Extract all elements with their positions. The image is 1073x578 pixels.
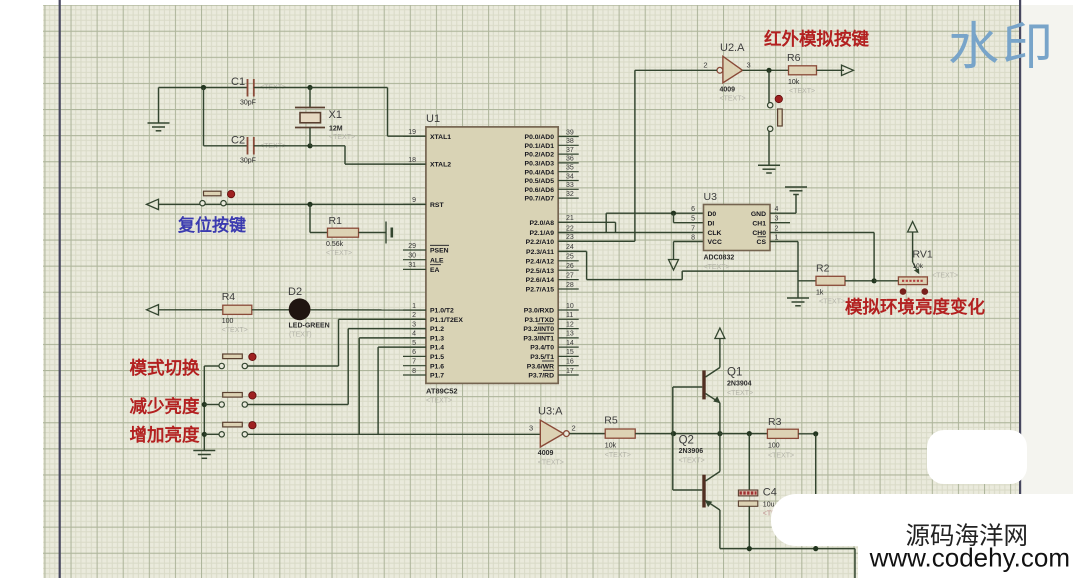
svg-text:X1: X1 bbox=[329, 109, 342, 121]
svg-text:2N3904: 2N3904 bbox=[727, 381, 752, 388]
svg-text:6: 6 bbox=[412, 349, 416, 356]
wire arrow to R4 bbox=[159, 309, 223, 311]
svg-text:减少亮度: 减少亮度 bbox=[130, 396, 200, 416]
svg-text:31: 31 bbox=[408, 262, 416, 269]
svg-text:39: 39 bbox=[566, 129, 574, 136]
svg-text:2: 2 bbox=[775, 226, 779, 233]
svg-text:模式切换: 模式切换 bbox=[130, 358, 200, 378]
cell symbol (reset) bbox=[386, 222, 392, 244]
wire to XTAL1 bbox=[310, 88, 426, 137]
reset net arrow bbox=[147, 199, 159, 209]
svg-text:ADC0832: ADC0832 bbox=[704, 255, 735, 262]
svg-text:P3.6/WR: P3.6/WR bbox=[527, 363, 554, 370]
svg-text:100: 100 bbox=[222, 318, 234, 325]
svg-text:R4: R4 bbox=[222, 291, 236, 303]
white corner block bbox=[858, 494, 1073, 578]
svg-text:21: 21 bbox=[566, 215, 574, 222]
svg-text:CH0: CH0 bbox=[752, 230, 766, 237]
svg-text:37: 37 bbox=[566, 147, 574, 154]
LED D2 bbox=[288, 286, 330, 339]
svg-text:30pF: 30pF bbox=[240, 158, 256, 165]
svg-text:6: 6 bbox=[691, 206, 695, 213]
svg-text:25: 25 bbox=[566, 254, 574, 261]
svg-text:P3.3/INT1: P3.3/INT1 bbox=[523, 336, 554, 343]
svg-text:4: 4 bbox=[775, 206, 779, 213]
potentiometer RV1 bbox=[898, 249, 958, 295]
svg-text:P3.2/INT0: P3.2/INT0 bbox=[523, 326, 554, 333]
svg-text:3: 3 bbox=[529, 424, 533, 433]
node CH0/R2/RV1 bbox=[872, 278, 877, 283]
svg-text:3: 3 bbox=[412, 321, 416, 328]
svg-text:P0.4/AD4: P0.4/AD4 bbox=[525, 169, 555, 176]
svg-text:1: 1 bbox=[775, 235, 779, 242]
svg-text:2N3906: 2N3906 bbox=[679, 448, 704, 455]
svg-text:5: 5 bbox=[412, 340, 416, 347]
svg-text:R2: R2 bbox=[816, 263, 830, 275]
svg-text:P3.4/T0: P3.4/T0 bbox=[530, 345, 554, 352]
svg-text:RV1: RV1 bbox=[913, 249, 933, 261]
node D0/DI tie bbox=[671, 211, 676, 216]
wire D2 to P1.0 bbox=[311, 309, 426, 311]
wire R3 right bbox=[798, 433, 815, 435]
svg-text:<TEXT>: <TEXT> bbox=[720, 96, 746, 103]
svg-text:复位按键: 复位按键 bbox=[177, 215, 246, 235]
svg-text:P3.5/T1: P3.5/T1 bbox=[530, 354, 554, 361]
svg-text:P0.2/AD2: P0.2/AD2 bbox=[525, 152, 555, 159]
svg-text:35: 35 bbox=[566, 165, 574, 172]
svg-text:增加亮度: 增加亮度 bbox=[130, 425, 200, 445]
svg-text:P2.4/A12: P2.4/A12 bbox=[526, 258, 555, 265]
svg-text:<TEXT>: <TEXT> bbox=[819, 299, 845, 306]
svg-text:P2.3/A11: P2.3/A11 bbox=[526, 249, 554, 256]
ground (infrared button) bbox=[758, 165, 780, 173]
node base tap bbox=[671, 431, 676, 436]
svg-text:13: 13 bbox=[566, 331, 574, 338]
svg-text:34: 34 bbox=[566, 173, 574, 180]
node R3 bottom bbox=[813, 546, 818, 551]
svg-text:P1.3: P1.3 bbox=[430, 336, 444, 343]
wire P2.1 / CLK row bbox=[558, 213, 703, 232]
wire CH1 stub bbox=[770, 222, 790, 224]
svg-text:XTAL1: XTAL1 bbox=[430, 134, 451, 141]
resistor R4 bbox=[222, 291, 252, 334]
svg-text:10k: 10k bbox=[605, 443, 617, 450]
svg-text:15: 15 bbox=[566, 349, 574, 356]
svg-text:19: 19 bbox=[408, 129, 416, 136]
wire R5 to emitter rail bbox=[635, 433, 720, 435]
svg-text:33: 33 bbox=[566, 182, 574, 189]
node (button tap) bbox=[766, 68, 771, 73]
svg-text:26: 26 bbox=[566, 263, 574, 270]
capacitor C1 bbox=[231, 76, 286, 107]
svg-text:4009: 4009 bbox=[538, 450, 554, 457]
node C4 bottom bbox=[747, 546, 752, 551]
push-button (infrared, vertical) bbox=[768, 70, 783, 165]
power flag up (Q1) bbox=[715, 328, 725, 339]
wire C1 to crystal node bbox=[254, 87, 310, 89]
label 模拟环境亮度变化 bbox=[845, 297, 985, 317]
node C4 top bbox=[747, 431, 752, 436]
push-button 模式切换 bbox=[219, 353, 256, 369]
svg-text:ALE: ALE bbox=[430, 257, 444, 264]
svg-text:2: 2 bbox=[572, 424, 576, 433]
label 增加亮度 bbox=[130, 425, 200, 445]
ground (buttons) bbox=[193, 451, 215, 459]
svg-text:1k: 1k bbox=[816, 290, 824, 297]
svg-text:100: 100 bbox=[768, 443, 780, 450]
svg-text:U1: U1 bbox=[426, 113, 440, 125]
svg-text:P3.1/TXD: P3.1/TXD bbox=[525, 317, 555, 324]
svg-text:Q1: Q1 bbox=[727, 367, 742, 379]
svg-text:P1.5: P1.5 bbox=[430, 354, 444, 361]
wire R4 to D2 bbox=[252, 309, 289, 311]
svg-text:CH1: CH1 bbox=[752, 220, 766, 227]
svg-text:<TEXT>: <TEXT> bbox=[326, 250, 352, 257]
wire button1 row bbox=[204, 365, 338, 367]
resistor R6 bbox=[787, 52, 817, 95]
resistor R2 bbox=[798, 263, 874, 306]
node rail/button2 bbox=[202, 402, 207, 407]
svg-text:R1: R1 bbox=[329, 215, 343, 227]
svg-text:P2.2/A10: P2.2/A10 bbox=[526, 239, 555, 246]
svg-text:Q2: Q2 bbox=[679, 435, 694, 447]
svg-text:2: 2 bbox=[703, 61, 707, 70]
svg-text:23: 23 bbox=[566, 234, 574, 241]
svg-text:17: 17 bbox=[566, 368, 574, 375]
svg-text:R6: R6 bbox=[787, 52, 801, 64]
svg-text:P1.7: P1.7 bbox=[430, 373, 444, 380]
svg-text:(TEXT): (TEXT) bbox=[289, 332, 312, 339]
svg-text:36: 36 bbox=[566, 156, 574, 163]
wire U2.A output bbox=[743, 69, 789, 71]
transistor Q1 2N3904 bbox=[673, 339, 753, 434]
wire P2.3 to CS net bbox=[558, 251, 798, 279]
wire C2 to crystal node bbox=[254, 145, 310, 147]
svg-text:P0.7/AD7: P0.7/AD7 bbox=[525, 196, 555, 203]
svg-text:P0.0/AD0: P0.0/AD0 bbox=[525, 134, 555, 141]
wire to XTAL2 bbox=[310, 146, 426, 164]
svg-text:P2.0/A8: P2.0/A8 bbox=[529, 220, 554, 227]
svg-text:P3.7/RD: P3.7/RD bbox=[528, 373, 554, 380]
svg-text:3: 3 bbox=[747, 61, 751, 70]
svg-text:29: 29 bbox=[408, 243, 416, 250]
svg-text:<TEXT>: <TEXT> bbox=[932, 273, 958, 280]
ground (crystal circuit) bbox=[148, 88, 170, 131]
wire bottom rail bbox=[720, 549, 855, 578]
svg-text:EA: EA bbox=[430, 267, 440, 274]
svg-text:18: 18 bbox=[408, 157, 416, 164]
svg-text:30: 30 bbox=[408, 253, 416, 260]
svg-text:<TEXT>: <TEXT> bbox=[222, 327, 248, 334]
svg-text:P0.1/AD1: P0.1/AD1 bbox=[525, 143, 555, 150]
net arrow (R4) bbox=[147, 305, 159, 315]
wire U2.A input bbox=[635, 69, 717, 71]
wire top (ground to C1) bbox=[159, 87, 248, 89]
svg-text:<TEXT>: <TEXT> bbox=[768, 453, 794, 460]
capacitor C2 bbox=[231, 135, 286, 165]
svg-text:10: 10 bbox=[566, 303, 574, 310]
svg-text:P1.1/T2EX: P1.1/T2EX bbox=[430, 317, 463, 324]
svg-text:8: 8 bbox=[691, 235, 695, 242]
svg-text:30pF: 30pF bbox=[240, 100, 256, 107]
capacitor C4 bbox=[738, 434, 788, 549]
wire D0 row bbox=[606, 212, 703, 214]
svg-text:22: 22 bbox=[566, 225, 574, 232]
ground (ADC GND pin) bbox=[770, 187, 807, 213]
white blob lower capsule bbox=[771, 494, 1073, 546]
svg-text:D2: D2 bbox=[288, 286, 302, 298]
wire button3 row bbox=[204, 433, 540, 435]
ground (R2 / CS) bbox=[787, 298, 809, 306]
svg-text:<TEXT>: <TEXT> bbox=[329, 134, 355, 141]
transistor Q2 2N3906 bbox=[673, 434, 720, 549]
svg-text:10u: 10u bbox=[763, 502, 775, 509]
svg-text:模拟环境亮度变化: 模拟环境亮度变化 bbox=[845, 297, 985, 317]
svg-text:3: 3 bbox=[775, 216, 779, 223]
svg-text:7: 7 bbox=[412, 359, 416, 366]
svg-text:红外模拟按键: 红外模拟按键 bbox=[764, 29, 869, 49]
svg-text:CS: CS bbox=[757, 239, 767, 246]
svg-text:U3:A: U3:A bbox=[538, 406, 563, 418]
svg-text:<TEXT>: <TEXT> bbox=[538, 460, 564, 467]
resistor R5 bbox=[604, 415, 635, 460]
node (C2 branch) bbox=[201, 85, 206, 90]
svg-text:P3.0/RXD: P3.0/RXD bbox=[524, 308, 554, 315]
label 复位按键 bbox=[177, 215, 246, 235]
wire P1.2 riser bbox=[348, 329, 426, 405]
svg-text:16: 16 bbox=[566, 359, 574, 366]
svg-text:DI: DI bbox=[708, 220, 715, 227]
svg-text:2: 2 bbox=[412, 312, 416, 319]
sheet border right bbox=[1019, 0, 1021, 578]
svg-text:4009: 4009 bbox=[720, 87, 736, 94]
svg-text:24: 24 bbox=[566, 244, 574, 251]
svg-text:5: 5 bbox=[691, 216, 695, 223]
svg-text:<TEXT>: <TEXT> bbox=[789, 88, 815, 95]
wire CH0 to RV1 bbox=[770, 233, 874, 281]
wire button rail bbox=[203, 366, 205, 451]
chip U3 ADC0832 bbox=[704, 191, 771, 271]
svg-text:<TEXT>: <TEXT> bbox=[727, 390, 753, 397]
U1 right pins with numbers bbox=[523, 129, 578, 379]
power flag down (ADC VCC) bbox=[669, 242, 704, 271]
svg-text:32: 32 bbox=[566, 191, 574, 198]
label 减少亮度 bbox=[130, 396, 200, 416]
svg-text:P0.3/AD3: P0.3/AD3 bbox=[525, 161, 555, 168]
svg-text:VCC: VCC bbox=[708, 239, 722, 246]
svg-text:P0.6/AD6: P0.6/AD6 bbox=[525, 187, 555, 194]
crystal X1 bbox=[295, 88, 355, 146]
wire P1.1 riser bbox=[339, 319, 426, 366]
svg-text:www.codehy.com: www.codehy.com bbox=[869, 543, 1070, 573]
svg-text:GND: GND bbox=[751, 211, 766, 218]
wire P1.3 riser bbox=[359, 338, 426, 434]
node (R1 tap) bbox=[307, 202, 312, 207]
svg-text:C4: C4 bbox=[763, 487, 777, 499]
node rail/button3 bbox=[202, 432, 207, 437]
resistor R1 bbox=[310, 204, 386, 257]
svg-text:0.56k: 0.56k bbox=[326, 241, 344, 248]
label 红外模拟按键 bbox=[764, 29, 869, 49]
svg-text:LED-GREEN: LED-GREEN bbox=[289, 323, 330, 330]
svg-text:XTAL2: XTAL2 bbox=[430, 162, 451, 169]
wire U3:A out to R5 bbox=[569, 433, 605, 435]
wire R6 out / net arrow bbox=[817, 65, 854, 75]
power flag up (RV1) bbox=[908, 222, 918, 263]
svg-text:P1.6: P1.6 bbox=[430, 363, 444, 370]
svg-text:4: 4 bbox=[412, 331, 416, 338]
U3 pins bbox=[691, 206, 778, 246]
wire R2 to RV1 bbox=[874, 280, 898, 282]
U1 left pins with numbers bbox=[403, 129, 463, 380]
svg-text:P2.1/A9: P2.1/A9 bbox=[529, 230, 554, 237]
svg-text:U2.A: U2.A bbox=[720, 42, 745, 54]
svg-text:12M: 12M bbox=[329, 126, 343, 133]
svg-text:<TEXT>: <TEXT> bbox=[704, 264, 730, 271]
svg-text:<TEXT>: <TEXT> bbox=[426, 398, 452, 405]
svg-text:8: 8 bbox=[412, 368, 416, 375]
svg-text:D0: D0 bbox=[708, 211, 717, 218]
svg-text:38: 38 bbox=[566, 138, 574, 145]
svg-text:10k: 10k bbox=[913, 263, 924, 270]
svg-text:14: 14 bbox=[566, 340, 574, 347]
wire button2 row bbox=[204, 404, 348, 406]
node R3/drop bbox=[813, 431, 818, 436]
wire RST bbox=[159, 203, 426, 205]
node emitter rail bbox=[717, 431, 722, 436]
push-button 增加亮度 bbox=[219, 422, 256, 437]
node (crystal bottom) bbox=[307, 143, 312, 148]
svg-text:水印: 水印 bbox=[948, 18, 1056, 75]
svg-text:11: 11 bbox=[566, 312, 573, 319]
svg-text:P1.2: P1.2 bbox=[430, 326, 444, 333]
svg-text:C2: C2 bbox=[231, 135, 245, 147]
inverter U2.A 4009 bbox=[703, 42, 750, 103]
svg-text:AT89C52: AT89C52 bbox=[426, 387, 458, 396]
white blob upper bbox=[927, 430, 1027, 484]
svg-text:<TEXT>: <TEXT> bbox=[605, 452, 631, 459]
svg-text:P1.4: P1.4 bbox=[430, 345, 444, 352]
svg-text:P1.0/T2: P1.0/T2 bbox=[430, 308, 454, 315]
sheet border left bbox=[59, 0, 61, 578]
svg-text:27: 27 bbox=[566, 272, 574, 279]
wire R3 drop bbox=[815, 434, 817, 549]
wire (C2 branch down) bbox=[204, 88, 248, 146]
wire rail to R3 bbox=[720, 433, 768, 435]
inverter U3:A 4009 bbox=[529, 406, 576, 467]
label 模式切换 bbox=[130, 358, 200, 378]
svg-text:P2.7/A15: P2.7/A15 bbox=[526, 287, 555, 294]
svg-text:28: 28 bbox=[566, 282, 574, 289]
svg-text:1: 1 bbox=[412, 303, 416, 310]
svg-text:9: 9 bbox=[412, 197, 416, 204]
wire P2.2 to inverter U2.A input bbox=[558, 70, 635, 241]
svg-text:C1: C1 bbox=[231, 76, 245, 88]
resistor R3 bbox=[767, 416, 798, 460]
svg-text:R3: R3 bbox=[768, 416, 782, 428]
push-button (reset) 复位按键 bbox=[200, 190, 235, 205]
svg-text:RST: RST bbox=[430, 202, 444, 209]
svg-text:12: 12 bbox=[566, 321, 574, 328]
svg-text:7: 7 bbox=[691, 226, 695, 233]
svg-text:10k: 10k bbox=[788, 79, 800, 86]
node (crystal top) bbox=[307, 85, 312, 90]
wire P2.0 to ADC bbox=[558, 222, 615, 232]
svg-text:P2.5/A13: P2.5/A13 bbox=[526, 268, 555, 275]
wire CS down bbox=[770, 242, 798, 299]
svg-text:P0.5/AD5: P0.5/AD5 bbox=[525, 178, 555, 185]
svg-text:PSEN: PSEN bbox=[430, 248, 449, 255]
svg-text:U3: U3 bbox=[704, 191, 718, 203]
svg-text:CLK: CLK bbox=[708, 230, 722, 237]
wire DI tie bbox=[674, 213, 704, 223]
push-button 减少亮度 bbox=[219, 392, 256, 408]
wire base rail bbox=[672, 387, 674, 490]
wire P1.4 riser bbox=[378, 347, 426, 434]
svg-text:P2.6/A14: P2.6/A14 bbox=[526, 277, 555, 284]
chip U1 AT89C52 bbox=[426, 113, 558, 405]
svg-text:R5: R5 bbox=[604, 415, 618, 427]
svg-text:<TEXT>: <TEXT> bbox=[679, 458, 705, 465]
